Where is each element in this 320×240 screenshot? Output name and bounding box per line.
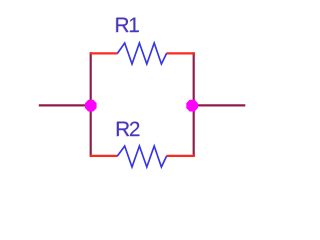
wire: bottom-right horizontal segment <box>166 155 194 157</box>
wire: left external stub <box>39 104 91 106</box>
resistor R2 <box>117 146 166 167</box>
node: left junction dot <box>85 100 97 112</box>
node: right junction dot <box>186 100 198 112</box>
wire: left vertical branch <box>90 52 92 157</box>
svg-text:R2: R2 <box>115 118 140 141</box>
wire: right vertical branch <box>193 52 195 157</box>
wire: top-left horizontal segment <box>90 52 118 54</box>
resistor R1 <box>117 43 166 64</box>
wire: bottom-left horizontal segment <box>90 155 118 157</box>
svg-text:R1: R1 <box>115 14 140 37</box>
wire: right external stub <box>194 104 246 106</box>
wire: top-right horizontal segment <box>166 52 194 54</box>
